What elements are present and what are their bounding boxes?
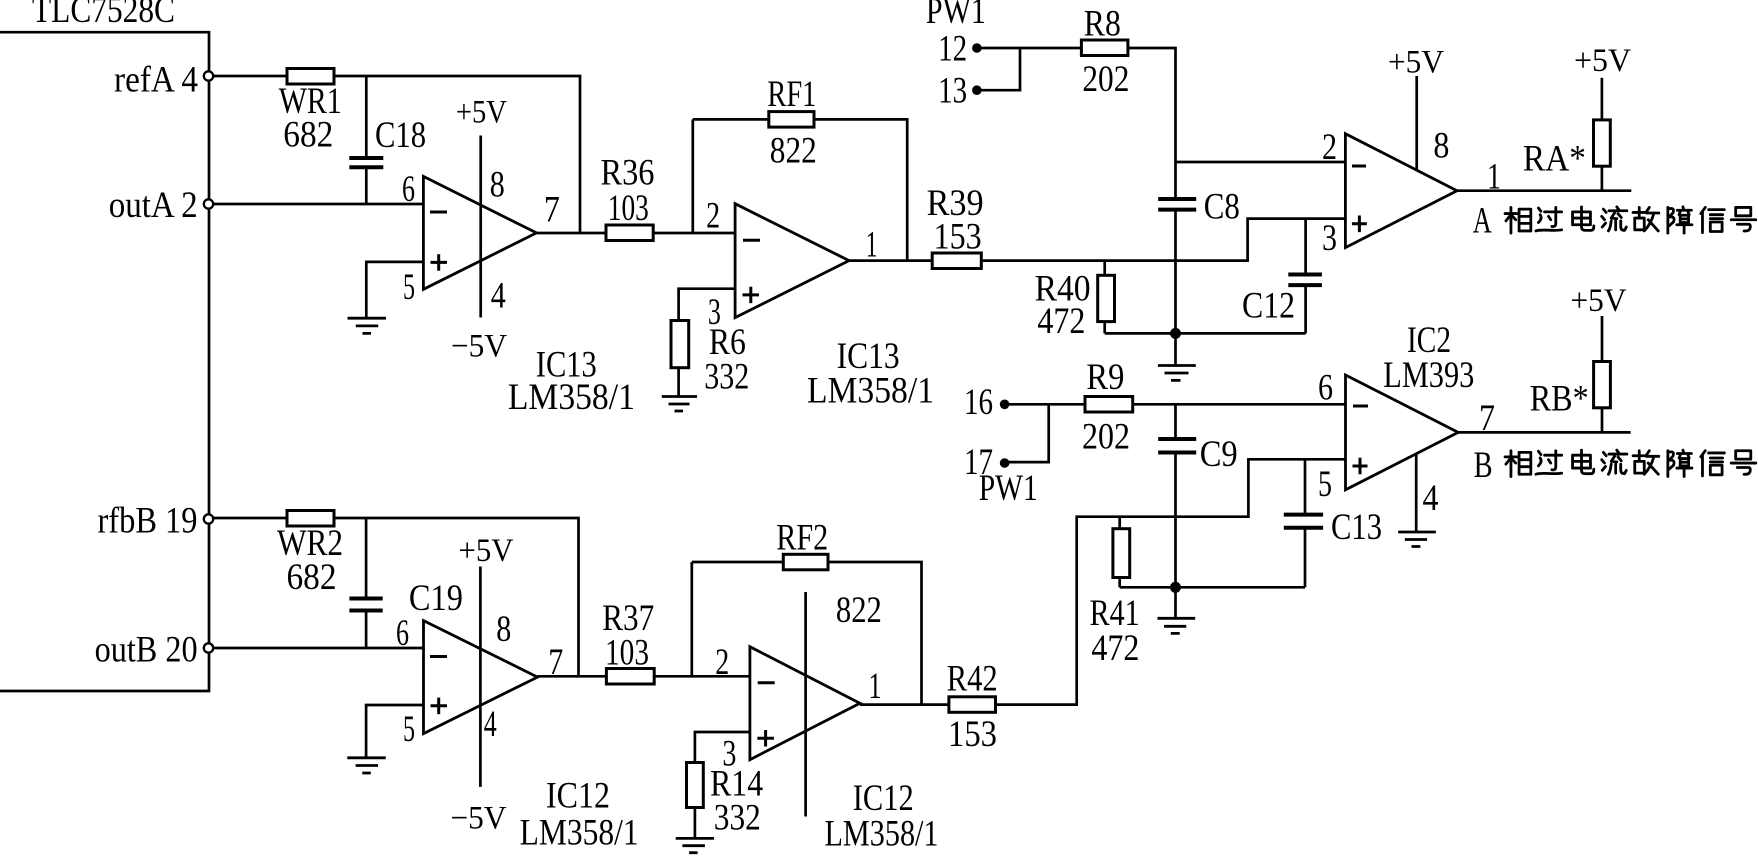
- RA* resistor: [1601, 78, 1604, 120]
- compB pin4 ground: [1415, 454, 1418, 532]
- wire R6 to ground: [677, 368, 680, 397]
- svg-text:6: 6: [1318, 368, 1333, 409]
- wire RF1 to right vertical: [814, 119, 907, 260]
- comparator IC2 A triangle: [1345, 134, 1457, 248]
- svg-text:PW1: PW1: [979, 468, 1038, 509]
- CJK text A phase: 相过电流故障信号: [1505, 207, 1756, 233]
- wire R42 step to comparator B pin5: [996, 459, 1346, 704]
- compA minus: [1352, 165, 1366, 168]
- capacitor C8: [1158, 197, 1196, 201]
- pin 17 dot: [1000, 458, 1010, 468]
- wire 16 to R9: [1006, 403, 1085, 406]
- svg-text:B: B: [1474, 445, 1493, 486]
- pin 12 dot: [972, 43, 982, 53]
- wire WR1 to feedback corner: [334, 76, 580, 233]
- CJK text B phase: 相过电流故障信号: [1505, 450, 1756, 476]
- wire R36 to A2 pin2: [653, 232, 735, 235]
- comparator IC2 B triangle: [1346, 375, 1459, 490]
- op-amp U IC13/2 A2 triangle: [735, 204, 849, 318]
- pin outB 20 circle: [204, 643, 213, 652]
- B2 minus: [758, 681, 775, 684]
- svg-text:103: 103: [608, 188, 649, 229]
- pin 16 dot: [1000, 400, 1010, 410]
- A1 pin5 wire to ground: [366, 262, 423, 318]
- svg-text:RF2: RF2: [776, 518, 828, 559]
- svg-text:5: 5: [403, 267, 415, 308]
- IC TLC7528C box: [0, 32, 209, 691]
- svg-text:R8: R8: [1084, 4, 1121, 45]
- wire 17 up: [1006, 404, 1049, 462]
- svg-text:5: 5: [403, 709, 415, 750]
- svg-text:rfbB 19: rfbB 19: [98, 501, 198, 542]
- A2 pin3 wire to R6: [679, 289, 736, 321]
- svg-text:LM358/1: LM358/1: [508, 377, 635, 418]
- svg-text:153: 153: [934, 217, 982, 258]
- wire R39 to step: [981, 219, 1345, 261]
- ground A1: [348, 318, 387, 333]
- svg-text:2: 2: [1322, 127, 1337, 168]
- resistor R40: [1103, 261, 1106, 276]
- wire B2 out to R42: [860, 703, 949, 706]
- svg-text:LM358/1: LM358/1: [520, 813, 639, 854]
- wire WR2 to feedback corner B: [334, 518, 579, 676]
- svg-text:C8: C8: [1204, 187, 1240, 228]
- comparator A pin2 wire: [1176, 161, 1346, 164]
- wire 12 to R8: [977, 47, 1082, 50]
- svg-text:LM358/1: LM358/1: [807, 371, 934, 412]
- svg-text:682: 682: [283, 115, 333, 156]
- svg-text:13: 13: [938, 71, 967, 112]
- resistor R42: [949, 697, 996, 713]
- wire refA to WR1: [214, 75, 288, 78]
- bottom wire A: [1105, 332, 1306, 335]
- B1 plus: [431, 698, 448, 715]
- resistor R8: [1081, 40, 1128, 56]
- svg-text:C9: C9: [1200, 434, 1238, 475]
- svg-text:R42: R42: [947, 659, 998, 700]
- pin refA 4 circle: [204, 71, 213, 80]
- B2 power line (unlabeled): [804, 592, 807, 817]
- pin rfbB 19 circle: [204, 514, 213, 523]
- svg-text:332: 332: [704, 356, 749, 397]
- svg-text:−5V: −5V: [451, 801, 507, 837]
- wire to RF2: [692, 561, 784, 564]
- wire rfbB to WR2: [214, 517, 288, 520]
- svg-text:C19: C19: [409, 578, 463, 619]
- svg-text:7: 7: [544, 190, 560, 231]
- wire RF2 to right vertical: [828, 562, 922, 705]
- svg-text:+5V: +5V: [1571, 283, 1627, 319]
- resistor R36: [606, 225, 653, 241]
- op-amp U IC12/1 B1 triangle: [424, 621, 538, 734]
- resistor R14: [687, 763, 704, 808]
- op-amp U IC12/2 B2 triangle: [750, 647, 860, 760]
- svg-text:202: 202: [1082, 417, 1130, 458]
- resistor R9: [1085, 397, 1133, 413]
- svg-text:8: 8: [496, 609, 511, 650]
- svg-text:refA 4: refA 4: [114, 60, 198, 101]
- resistor WR2: [287, 511, 334, 527]
- svg-text:RB*: RB*: [1530, 378, 1589, 419]
- resistor RF1: [769, 112, 814, 128]
- A1 power line: [479, 136, 482, 318]
- feedback loop RF1 left vertical: [691, 119, 694, 233]
- capacitor C12: [1304, 219, 1307, 275]
- B2 plus: [757, 730, 774, 747]
- svg-text:3: 3: [1322, 218, 1337, 259]
- wire A1 out to R36: [537, 232, 607, 235]
- svg-text:TLC7528C: TLC7528C: [32, 0, 175, 31]
- B1 minus: [430, 655, 447, 658]
- svg-text:outB 20: outB 20: [95, 630, 198, 671]
- B1 pin5 wire to ground: [366, 705, 423, 758]
- svg-text:A: A: [1473, 200, 1492, 241]
- svg-text:2: 2: [706, 196, 720, 237]
- capacitor C13: [1304, 459, 1307, 514]
- wire outB to op-amp B1 pin6: [214, 647, 424, 650]
- junction dot B: [1170, 582, 1181, 593]
- svg-text:4: 4: [491, 276, 506, 317]
- A1 plus: [431, 254, 448, 271]
- svg-text:4: 4: [1423, 478, 1439, 519]
- junction dot A: [1170, 328, 1181, 339]
- svg-text:IC12: IC12: [546, 775, 610, 816]
- compB plus: [1353, 458, 1368, 475]
- wire R14 to ground: [694, 808, 697, 839]
- capacitor C19: [365, 518, 368, 599]
- svg-text:202: 202: [1082, 59, 1129, 100]
- op-amp U IC13/1 A1 triangle: [423, 176, 536, 289]
- svg-text:8: 8: [490, 164, 505, 205]
- svg-text:332: 332: [714, 797, 761, 838]
- compA output wire: [1457, 189, 1631, 192]
- compB output wire: [1458, 431, 1630, 434]
- A2 minus: [743, 239, 760, 242]
- wire B1 out to R37: [538, 675, 607, 678]
- svg-text:RA*: RA*: [1523, 138, 1586, 179]
- svg-text:C12: C12: [1242, 285, 1295, 326]
- ground B1: [347, 758, 386, 773]
- compA plus: [1352, 216, 1367, 233]
- A1 minus: [430, 211, 447, 214]
- capacitor C18: [365, 76, 368, 158]
- ground A: [1174, 333, 1177, 365]
- svg-text:822: 822: [836, 590, 882, 631]
- svg-text:−5V: −5V: [451, 329, 507, 365]
- svg-text:R9: R9: [1086, 357, 1124, 398]
- svg-text:4: 4: [484, 704, 497, 745]
- svg-text:outA 2: outA 2: [109, 185, 198, 226]
- svg-text:LM393: LM393: [1383, 355, 1474, 396]
- RB* resistor: [1601, 316, 1604, 362]
- B2 pin3 wire to R14: [695, 732, 750, 763]
- svg-text:RF1: RF1: [767, 74, 816, 115]
- ground R6: [662, 397, 697, 412]
- svg-text:822: 822: [770, 130, 817, 171]
- resistor R41: [1118, 517, 1121, 529]
- svg-text:5: 5: [1318, 464, 1332, 505]
- svg-text:+5V: +5V: [1574, 43, 1631, 79]
- svg-text:8: 8: [1433, 126, 1449, 167]
- resistor R39: [932, 253, 981, 269]
- svg-text:C13: C13: [1331, 507, 1382, 548]
- svg-text:+5V: +5V: [1388, 45, 1444, 81]
- wire A2 out to R39: [849, 259, 932, 262]
- wire outA to op-amp A1 pin6: [214, 203, 424, 206]
- pin outA 2 circle: [204, 199, 213, 208]
- svg-text:103: 103: [605, 632, 649, 673]
- svg-text:16: 16: [964, 382, 993, 423]
- svg-text:6: 6: [396, 613, 409, 654]
- wire to RF1: [693, 118, 769, 121]
- svg-text:C18: C18: [375, 115, 426, 156]
- svg-text:PW1: PW1: [926, 0, 986, 32]
- wire R8 to C8 column: [1128, 48, 1176, 199]
- feedback loop RF2 left vertical: [690, 562, 693, 676]
- svg-text:+5V: +5V: [459, 533, 514, 569]
- svg-text:2: 2: [715, 642, 729, 683]
- svg-text:+5V: +5V: [456, 94, 507, 130]
- resistor R6: [671, 321, 689, 368]
- resistor RF2: [783, 554, 828, 570]
- compB minus: [1353, 405, 1368, 408]
- svg-text:LM358/1: LM358/1: [825, 814, 939, 855]
- bottom wire B: [1120, 586, 1305, 589]
- svg-text:12: 12: [938, 29, 967, 70]
- wire R37 to B2 pin2: [654, 675, 750, 678]
- svg-text:472: 472: [1037, 301, 1085, 342]
- ground B: [1174, 587, 1177, 618]
- svg-text:682: 682: [287, 557, 337, 598]
- B1 power line: [479, 567, 482, 787]
- svg-text:1: 1: [869, 666, 882, 707]
- A2 plus: [743, 287, 760, 303]
- wire 13 up: [977, 48, 1020, 90]
- wire R9 to comparator B pin6: [1133, 403, 1346, 406]
- svg-text:6: 6: [402, 169, 415, 210]
- svg-text:153: 153: [948, 714, 997, 755]
- capacitor C9: [1174, 404, 1177, 439]
- ground R14: [676, 838, 714, 852]
- pin 13 dot: [972, 85, 982, 95]
- resistor R37: [606, 669, 654, 685]
- resistor WR1: [287, 69, 334, 85]
- svg-text:472: 472: [1091, 628, 1139, 669]
